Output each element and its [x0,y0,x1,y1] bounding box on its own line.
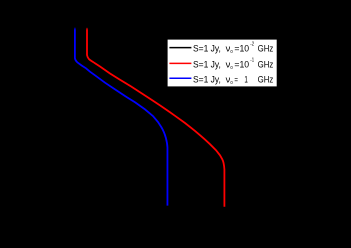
svg-text:S=1 Jy,: S=1 Jy, [193,59,221,70]
svg-text:GHz: GHz [258,74,274,85]
curve S=1 Jy nu_o=1 GHz (blue) [75,28,168,206]
svg-text:S=1 Jy,: S=1 Jy, [193,44,221,55]
svg-text:=: = [234,74,238,85]
legend row 1 text: S=1 Jy, nu_o=10^-2 GHz [193,42,274,56]
legend row 2 text: S=1 Jy, nu_o=10^-1 GHz [193,57,274,71]
svg-text:o: o [230,65,232,71]
svg-text:-1: -1 [250,57,254,63]
svg-text:GHz: GHz [258,44,274,55]
curve S=1 Jy nu_o=10^-2 GHz (black, invisible on black background) [62,28,121,207]
svg-text:-2: -2 [250,42,254,48]
svg-text:=10: =10 [234,59,249,70]
svg-text:GHz: GHz [258,59,274,70]
legend box [168,40,277,87]
svg-text:1: 1 [244,74,248,85]
svg-text:o: o [230,80,232,86]
legend sample line red [169,62,191,64]
svg-text:o: o [230,49,232,55]
svg-text:S=1 Jy,: S=1 Jy, [193,74,221,85]
legend sample line blue [169,77,191,79]
legend sample line black [169,47,191,49]
legend row 3 text: S=1 Jy, nu_o= 1 GHz [193,74,274,86]
curve S=1 Jy nu_o=10^-1 GHz (red) [87,28,224,207]
svg-text:=10: =10 [234,44,249,55]
